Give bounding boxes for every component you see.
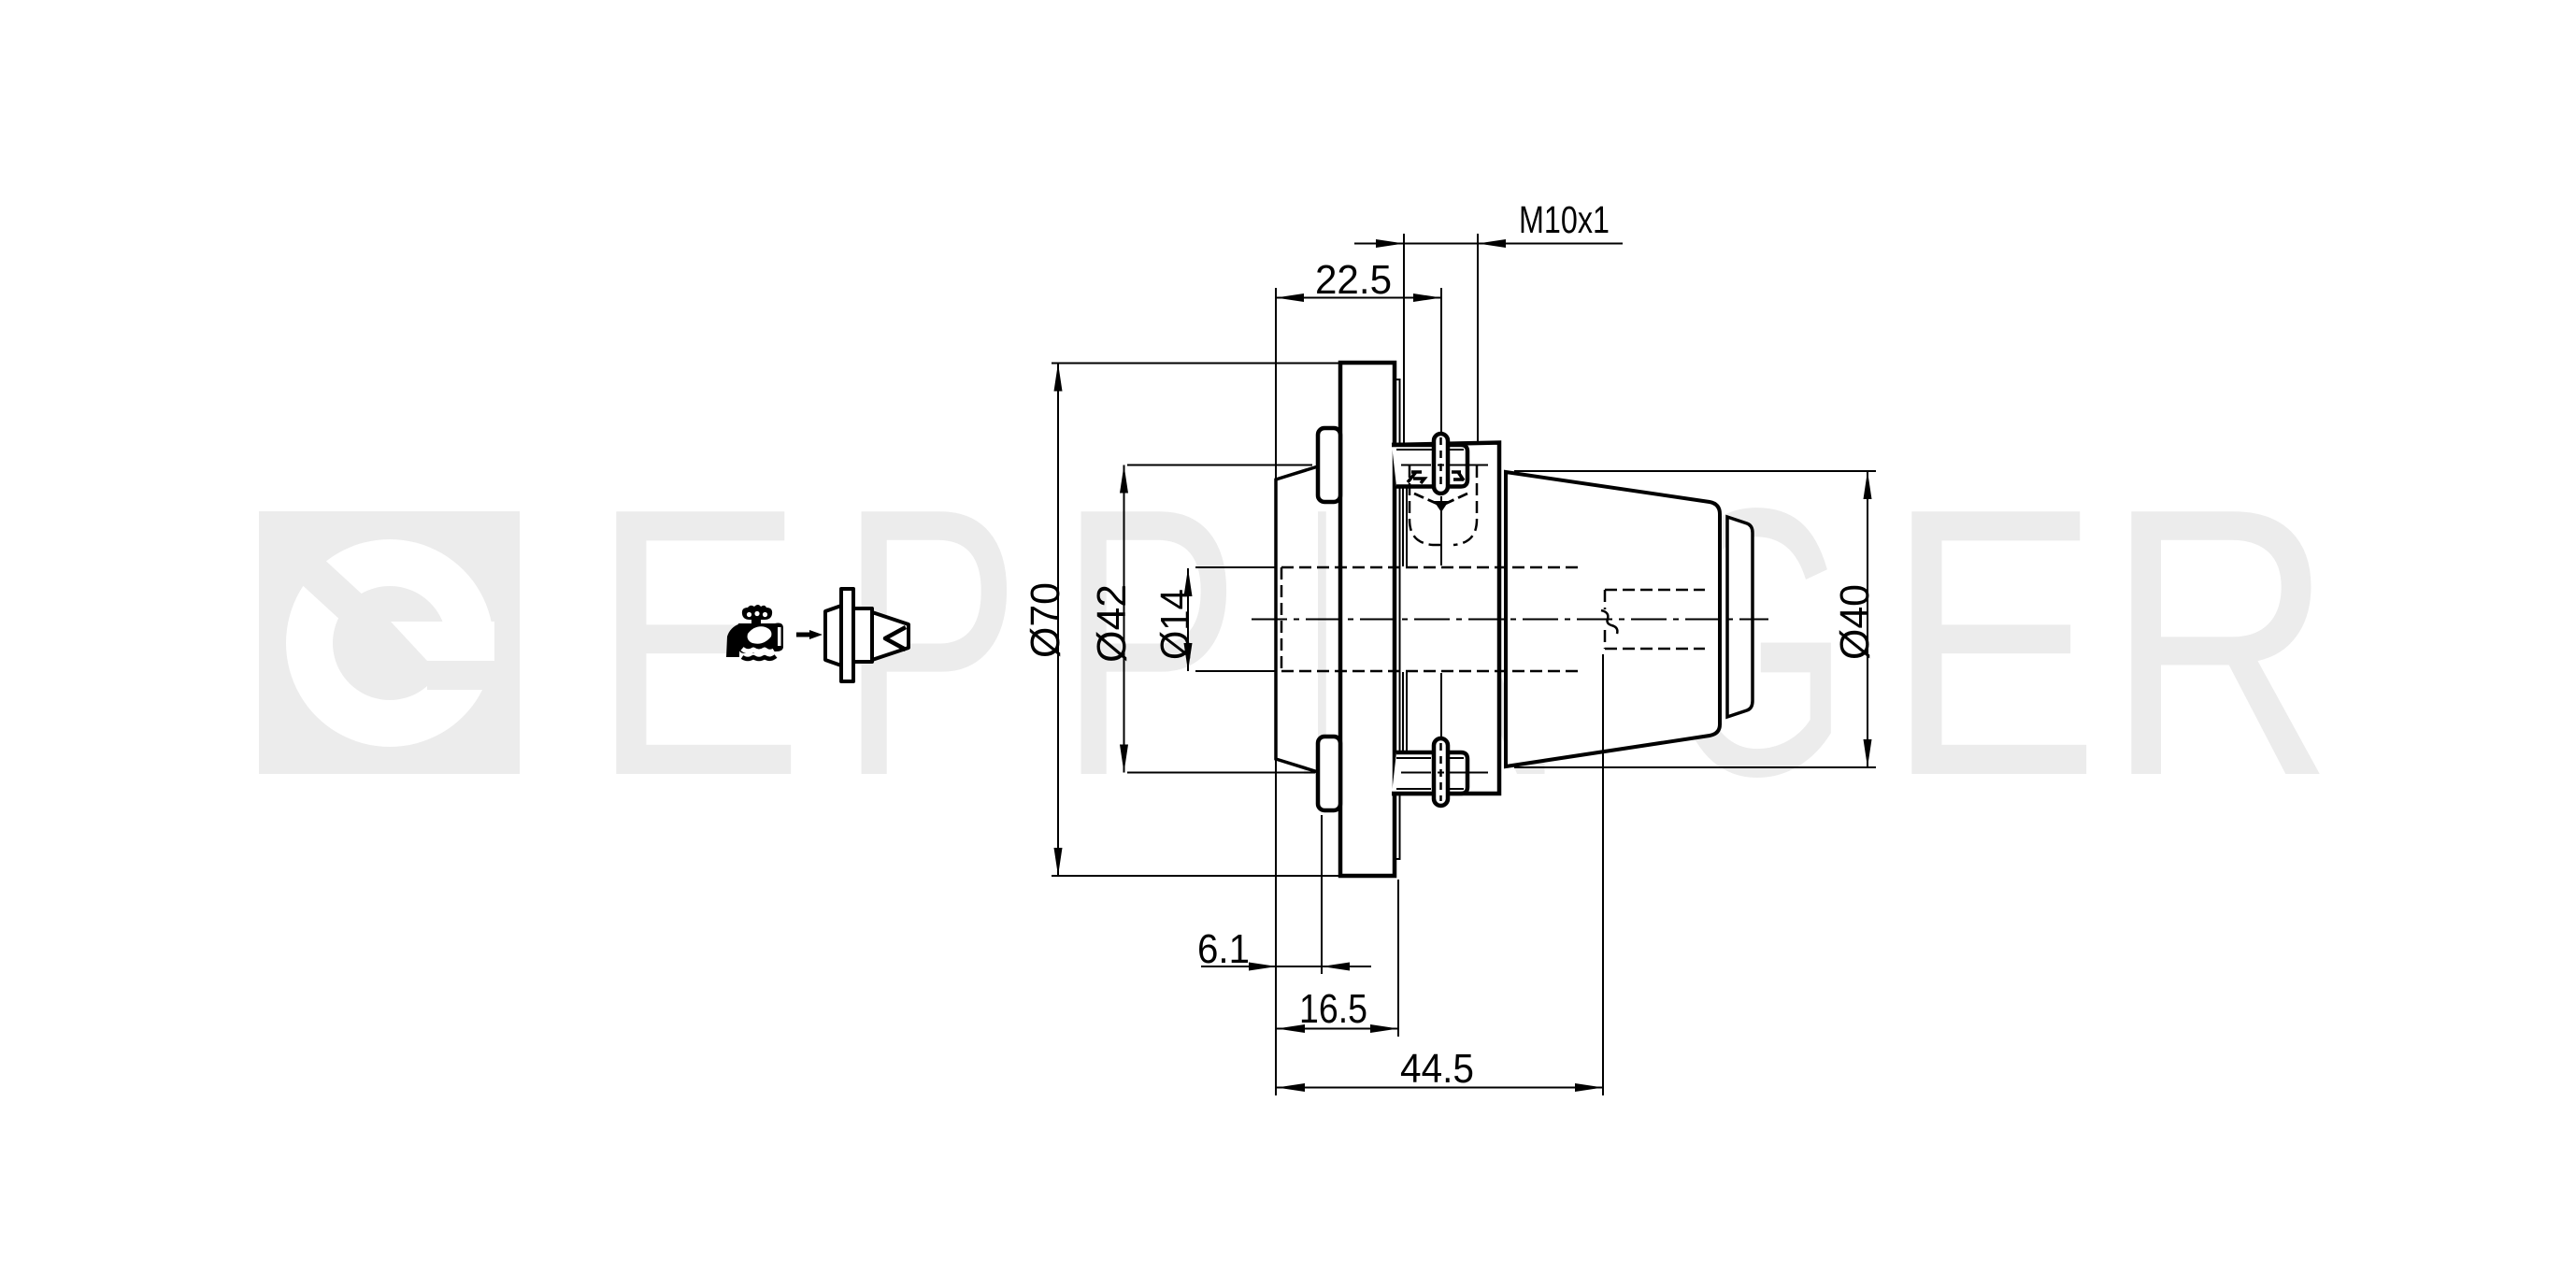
front body white fill (1395, 443, 1499, 794)
nose bore hidden (1605, 589, 1705, 592)
extension line M10 left (1403, 234, 1405, 443)
centerline (1252, 619, 1768, 621)
svg-text:6.1: 6.1 (1197, 926, 1250, 972)
extension line screw axis (22.5 right) (1440, 288, 1442, 432)
set screw pin top (1434, 434, 1448, 494)
thread line through pins (1438, 465, 1444, 773)
clamp tab top (1318, 428, 1340, 502)
svg-text:16.5: 16.5 (1299, 986, 1367, 1032)
thread lines at boss (Ø42 level) (1401, 465, 1488, 773)
watermark logo square (259, 511, 520, 774)
extension line M10 right (1477, 234, 1479, 443)
clamp tab bottom (1318, 737, 1340, 810)
thread marks in section (1408, 472, 1424, 483)
svg-text:M10x1: M10x1 (1519, 198, 1610, 241)
set screw boss bottom (1392, 752, 1467, 794)
svg-text:44.5: 44.5 (1400, 1046, 1474, 1092)
cone (Ø40 taper) (1506, 472, 1720, 766)
front body edges (1392, 443, 1499, 794)
svg-text:22.5: 22.5 (1315, 257, 1392, 303)
extension line Ø14 top (1195, 566, 1277, 568)
faucet bottom wave (742, 656, 776, 659)
set screw boss top (1392, 445, 1467, 487)
bore step hook (1601, 610, 1617, 634)
mini chuck icon (825, 589, 909, 681)
M10 hole hidden outline (1410, 465, 1443, 545)
flange face step line (1395, 379, 1400, 859)
bore hidden lines Ø14 (1281, 465, 1705, 671)
extension line rear face upper (22.5 left) (1275, 288, 1277, 479)
faucet white lens (748, 626, 772, 643)
faucet body (738, 623, 783, 653)
extension line rear face lower (6.1/16.5/44.5 left) (1275, 759, 1277, 1095)
svg-text:R: R (2106, 430, 2335, 855)
svg-text:E: E (1885, 430, 2100, 855)
nose cylinder (1727, 517, 1753, 717)
extension line Ø70 top (1052, 363, 1354, 365)
extension line Ø70 bottom (1052, 875, 1340, 877)
extension line Ø40 bottom (1514, 766, 1876, 768)
svg-text:Ø40: Ø40 (1832, 584, 1878, 660)
svg-text:Ø14: Ø14 (1152, 589, 1198, 660)
faucet spout (726, 623, 745, 657)
svg-text:Ø70: Ø70 (1023, 582, 1068, 658)
dim Ø40 (1832, 471, 1878, 767)
svg-text:Ø42: Ø42 (1089, 584, 1135, 663)
dim 44.5 (1277, 1046, 1603, 1092)
dim Ø70 (1023, 364, 1068, 877)
rear body (Ø42 taper) (1276, 466, 1318, 772)
dim M10x1 (1354, 198, 1623, 248)
extension line Ø40 top (1514, 470, 1876, 472)
flange (Ø70 plate) (1340, 363, 1395, 876)
extension line Ø42 bottom (1127, 772, 1315, 774)
extension line Ø42 top (1127, 465, 1312, 466)
dim Ø14 (1152, 568, 1198, 671)
extension line bore step (44.5 right) (1602, 654, 1604, 1095)
dim 16.5 (1277, 986, 1398, 1033)
extension line Ø14 bottom (1195, 670, 1277, 672)
svg-text:P: P (1059, 430, 1241, 855)
extension line flange front face (16.5 right) (1397, 880, 1399, 1037)
dim Ø42 (1089, 465, 1135, 773)
dim 22.5 (1276, 257, 1441, 303)
set screw pin bottom (1434, 738, 1448, 806)
faucet stem (751, 618, 761, 626)
watermark text EPPINGER (590, 430, 2335, 855)
mini chuck icon arrow (796, 630, 823, 639)
faucet white wave (742, 649, 774, 651)
extension line tab face (6.1 right) (1321, 815, 1323, 974)
dim 6.1 (1197, 926, 1371, 972)
faucet icon (coolant symbol) (726, 605, 783, 659)
interior passage lines (1403, 487, 1407, 751)
coolant arrow in screw hole (1414, 494, 1467, 505)
faucet outlet slot (778, 627, 781, 646)
faucet handle (742, 605, 772, 620)
